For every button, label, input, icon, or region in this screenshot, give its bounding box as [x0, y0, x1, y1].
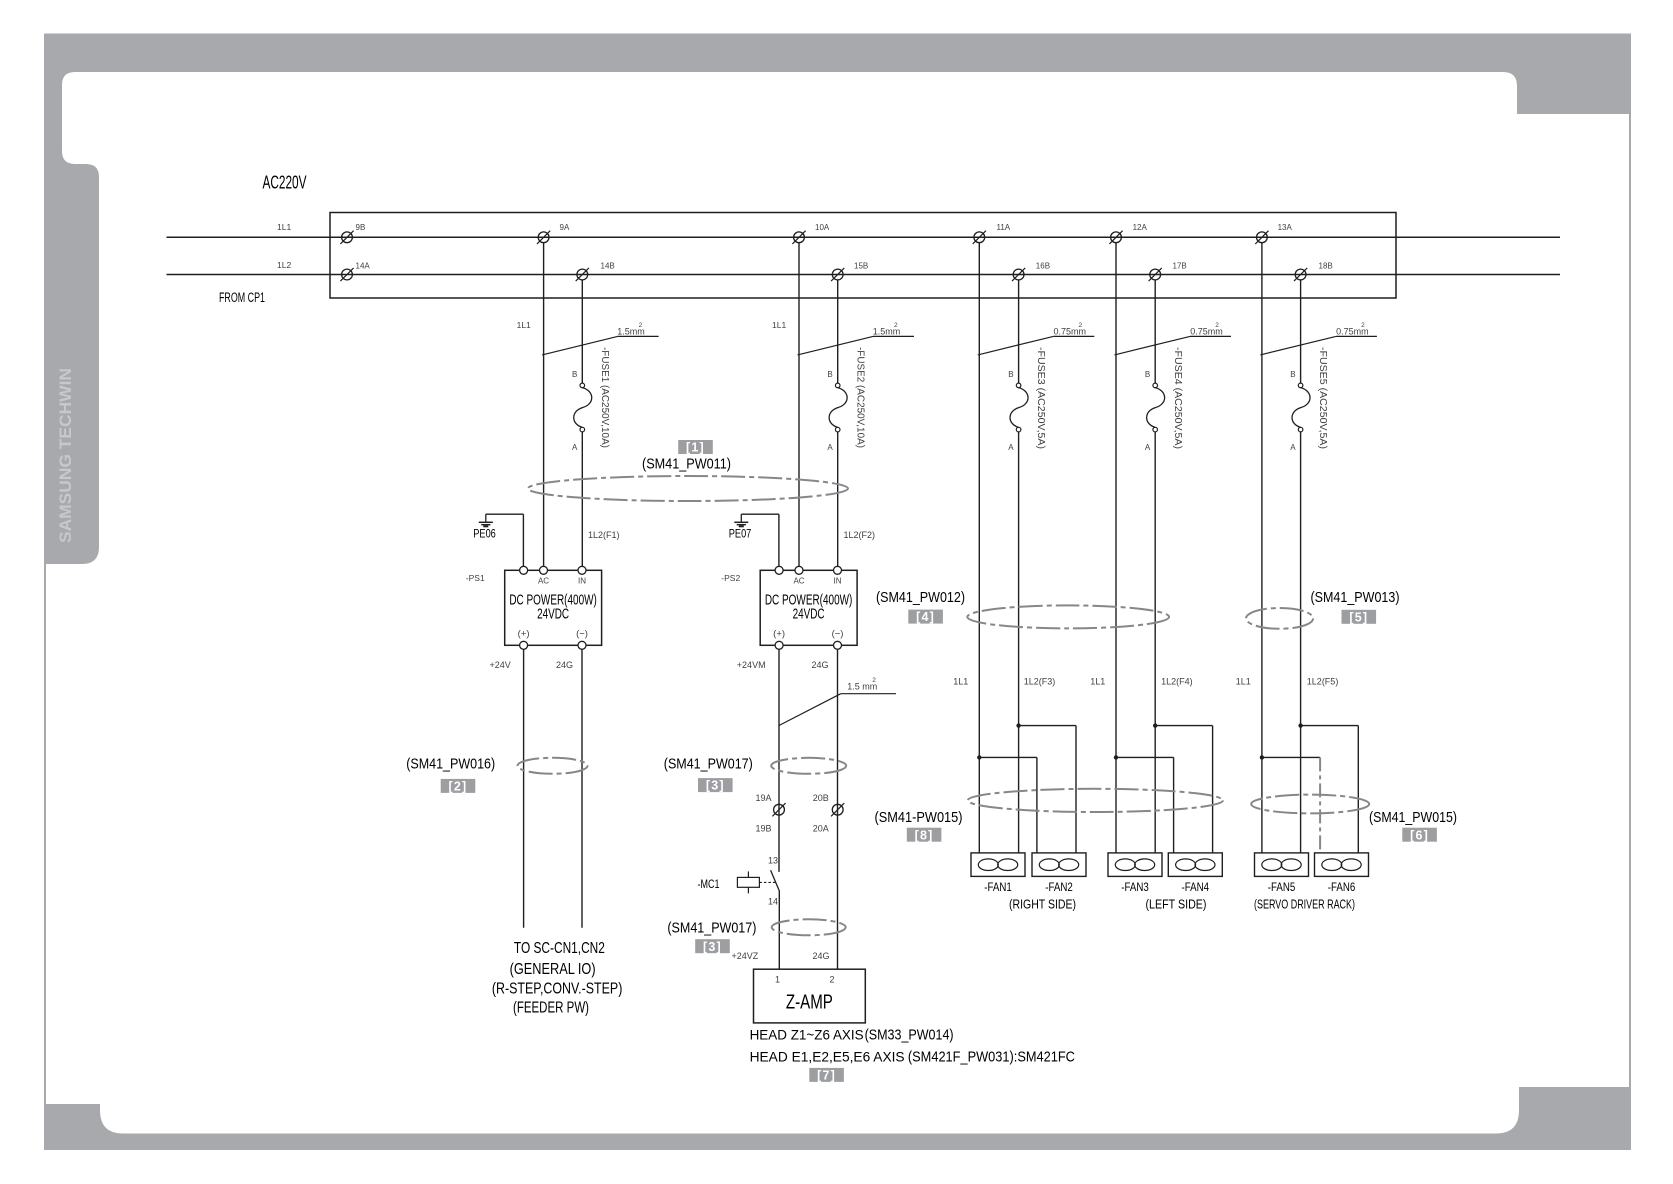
wire 1L2 drop through FUSE3 — [1018, 280, 1020, 853]
svg-text:TO SC-CN1,CN2: TO SC-CN1,CN2 — [514, 940, 605, 957]
svg-text:(LEFT SIDE): (LEFT SIDE) — [1146, 897, 1207, 911]
wire 1L2 drop through FUSE4 — [1154, 280, 1156, 853]
cable ellipse (SM41_PW016) — [518, 758, 588, 774]
svg-text:24VDC: 24VDC — [793, 607, 825, 623]
wire gauge marker 1.5mm2 (PS2 output) — [779, 677, 896, 726]
svg-text:2: 2 — [1079, 322, 1083, 329]
svg-text:(−): (−) — [832, 629, 844, 640]
destination note text — [492, 940, 623, 1016]
svg-text:1L1: 1L1 — [953, 677, 968, 687]
svg-text:AC220V: AC220V — [263, 172, 307, 192]
svg-text:[3]: [3] — [703, 940, 722, 954]
svg-text:B: B — [827, 370, 832, 379]
svg-text:1L1: 1L1 — [1236, 677, 1251, 687]
fan -FAN6 — [1315, 853, 1369, 894]
label (SM41_PW015) — [1369, 809, 1457, 826]
fan -FAN1 — [971, 853, 1025, 894]
node junction 1L1 branch to FAN6 (dash-dot) — [1260, 755, 1320, 853]
badge [8] — [907, 828, 942, 843]
svg-text:(SM41_PW017): (SM41_PW017) — [667, 919, 756, 936]
Z-AMP destination notes — [750, 1027, 1075, 1066]
badge [7] — [809, 1068, 844, 1083]
ground PE07 — [729, 514, 752, 540]
power supply PS1 — [466, 566, 602, 649]
svg-text:Z-AMP: Z-AMP — [786, 991, 833, 1014]
svg-text:14B: 14B — [601, 262, 615, 271]
fan -FAN3 — [1108, 853, 1162, 894]
node junction 1L1 branch to FAN4 — [1114, 755, 1174, 853]
svg-text:-FAN6: -FAN6 — [1328, 880, 1356, 894]
wire gauge marker 0.75mm2 (col 4) — [1115, 322, 1232, 355]
svg-text:1L1: 1L1 — [1090, 677, 1105, 687]
wire 1L2 bus line — [167, 260, 1561, 274]
wire gauge marker 1.5mm2 (col 1) — [542, 322, 659, 355]
FROM CP1 label — [219, 290, 265, 305]
node junction 1L2(F5) branch — [1298, 723, 1358, 853]
wire 1L2 drop through FUSE2 — [837, 280, 839, 566]
svg-text:12A: 12A — [1133, 223, 1148, 232]
ground PE06 — [473, 514, 496, 540]
svg-text:10A: 10A — [815, 223, 830, 232]
svg-text:1L1: 1L1 — [277, 222, 291, 232]
svg-text:-FAN2: -FAN2 — [1045, 880, 1073, 894]
label 1L1 fan feed — [1236, 677, 1251, 687]
fuse FUSE4 — [1145, 347, 1183, 452]
wire PE07 to PS2 — [741, 514, 779, 566]
svg-text:(+): (+) — [518, 629, 530, 640]
terminal 18B — [1294, 262, 1333, 282]
svg-text:2: 2 — [1361, 322, 1365, 329]
wire gauge marker 0.75mm2 (col 5) — [1260, 322, 1377, 355]
label 1L1 fan feed — [953, 677, 968, 687]
svg-text:20B: 20B — [813, 793, 829, 803]
svg-text:(GENERAL IO): (GENERAL IO) — [510, 961, 596, 978]
svg-text:-FUSE3 (AC250V,5A): -FUSE3 (AC250V,5A) — [1035, 347, 1046, 449]
svg-text:[8]: [8] — [915, 828, 934, 842]
terminal 14B — [576, 262, 615, 282]
svg-text:-FAN4: -FAN4 — [1182, 880, 1210, 894]
wire 1L1 drop to PS2 — [772, 243, 799, 567]
cable ellipse (SM41_PW012) — [967, 605, 1169, 628]
svg-text:IN: IN — [834, 577, 842, 586]
svg-text:B: B — [1008, 370, 1013, 379]
svg-text:13A: 13A — [1278, 223, 1293, 232]
label (LEFT SIDE) — [1146, 897, 1207, 911]
label 1L1 fan feed — [1090, 677, 1105, 687]
svg-text:13: 13 — [768, 856, 778, 866]
terminal 9B — [340, 223, 365, 244]
svg-text:(RIGHT SIDE): (RIGHT SIDE) — [1009, 897, 1076, 911]
svg-text:24G: 24G — [812, 660, 829, 670]
svg-text:FROM CP1: FROM CP1 — [219, 290, 265, 305]
label +24VM — [737, 660, 766, 670]
samsung techwin sidebar logo — [56, 368, 75, 543]
svg-text:1: 1 — [775, 975, 780, 985]
wire +24VM down from PS2 — [778, 649, 780, 872]
svg-text:1L2(F3): 1L2(F3) — [1024, 677, 1056, 687]
svg-text:[1]: [1] — [686, 441, 705, 455]
svg-text:2: 2 — [1215, 322, 1219, 329]
label (SM41_PW016) — [406, 755, 495, 772]
wire 1L1 drop (col 4) — [1115, 243, 1117, 853]
svg-text:+24VM: +24VM — [737, 660, 766, 670]
label 24G (PS1) — [556, 660, 573, 670]
badge [5] — [1342, 610, 1377, 625]
terminal 14A — [340, 262, 370, 282]
svg-text:18B: 18B — [1319, 262, 1333, 271]
label 1L2(F2) — [844, 530, 876, 540]
svg-text:(SM41_PW015): (SM41_PW015) — [1369, 809, 1457, 826]
label (SM41_PW017) upper — [664, 755, 753, 772]
svg-text:(+): (+) — [773, 629, 785, 640]
svg-text:[6]: [6] — [1410, 828, 1429, 842]
svg-text:IN: IN — [578, 577, 586, 586]
svg-text:A: A — [1145, 443, 1151, 452]
label +24V — [490, 660, 511, 670]
label 1L2(F1) — [588, 530, 620, 540]
svg-text:B: B — [1145, 370, 1150, 379]
svg-text:9B: 9B — [356, 223, 366, 232]
svg-text:[2]: [2] — [449, 780, 468, 794]
svg-text:14: 14 — [768, 897, 778, 907]
cable ellipse (SM41_PW015) fans 5-6 — [1251, 795, 1369, 814]
svg-text:11A: 11A — [997, 223, 1011, 232]
badge [2] — [441, 779, 476, 794]
svg-text:[7]: [7] — [817, 1069, 836, 1083]
terminal 9A — [537, 223, 570, 244]
svg-text:A: A — [827, 443, 833, 452]
svg-text:19B: 19B — [756, 823, 772, 833]
terminal 16B — [1012, 262, 1050, 282]
bus terminal box — [330, 213, 1396, 299]
wire PE06 to PS1 — [486, 514, 524, 566]
label (SM41_PW013) — [1311, 589, 1400, 606]
svg-text:(SERVO DRIVER RACK): (SERVO DRIVER RACK) — [1254, 897, 1355, 911]
svg-text:A: A — [572, 443, 578, 452]
svg-text:-FUSE1 (AC250V,10A): -FUSE1 (AC250V,10A) — [599, 347, 610, 448]
terminal 10A — [792, 223, 829, 244]
svg-text:16B: 16B — [1036, 262, 1050, 271]
label (SM41_PW011) — [642, 455, 731, 472]
terminal 13A — [1255, 223, 1292, 244]
amplifier Z-AMP — [754, 969, 866, 1023]
cable ellipse (SM41_PW017) upper — [771, 758, 846, 774]
wire gauge marker 1.5mm2 (col 2) — [798, 322, 915, 355]
label 1L2(F5) fan feed — [1307, 677, 1339, 687]
svg-text:HEAD Z1~Z6 AXIS: HEAD Z1~Z6 AXIS — [750, 1028, 864, 1043]
svg-text:-PS1: -PS1 — [466, 573, 485, 583]
label 24G (PS2) — [812, 660, 829, 670]
svg-text:-PS2: -PS2 — [721, 573, 740, 583]
svg-text:SAMSUNG TECHWIN: SAMSUNG TECHWIN — [56, 368, 75, 543]
svg-text:2: 2 — [872, 677, 876, 684]
cable ellipse (SM41_PW011) — [528, 476, 848, 501]
wire 1L1 drop (col 3) — [978, 243, 980, 853]
wire 1L1 drop (col 5) — [1261, 243, 1263, 853]
svg-text:-FAN3: -FAN3 — [1121, 880, 1149, 894]
fan -FAN2 — [1032, 853, 1086, 894]
badge [3] upper — [698, 778, 733, 793]
svg-text:1L2(F5): 1L2(F5) — [1307, 677, 1339, 687]
svg-text:(SM41_PW013): (SM41_PW013) — [1311, 589, 1400, 606]
svg-text:14A: 14A — [356, 262, 371, 271]
svg-text:(SM41_PW012): (SM41_PW012) — [876, 589, 965, 606]
label 1L2(F3) fan feed — [1024, 677, 1056, 687]
terminal 15B — [831, 262, 868, 282]
terminal 19A/19B — [756, 793, 786, 834]
svg-text:(SM33_PW014): (SM33_PW014) — [865, 1027, 954, 1044]
svg-text:[5]: [5] — [1349, 610, 1368, 624]
cable ellipse (SM41-PW015) fans 1-4 — [968, 789, 1223, 812]
cable ellipse (SM41_PW013) — [1246, 608, 1313, 629]
svg-text:[4]: [4] — [916, 610, 935, 624]
AC220V label — [263, 172, 307, 192]
svg-text:AC: AC — [793, 577, 804, 586]
svg-text:2: 2 — [829, 975, 834, 985]
svg-text:(SM41_PW016): (SM41_PW016) — [406, 755, 495, 772]
svg-text:-FUSE4 (AC250V,5A): -FUSE4 (AC250V,5A) — [1172, 347, 1183, 449]
svg-text:1L1: 1L1 — [772, 320, 786, 330]
svg-text:17B: 17B — [1173, 262, 1187, 271]
svg-text:-MC1: -MC1 — [698, 877, 720, 891]
svg-text:-FUSE5 (AC250V,5A): -FUSE5 (AC250V,5A) — [1317, 347, 1328, 449]
power supply PS2 — [721, 566, 857, 649]
node junction 1L2(F4) branch — [1153, 723, 1213, 853]
wire contact to Z-AMP pin1 — [778, 891, 780, 969]
svg-text:9A: 9A — [560, 223, 570, 232]
fuse FUSE2 — [827, 347, 865, 452]
node junction 1L2(F3) branch — [1016, 723, 1076, 853]
wire 24G down from PS2 — [837, 649, 839, 969]
terminal 12A — [1109, 223, 1147, 244]
wire 1L2 drop through FUSE5 — [1300, 280, 1302, 853]
fan -FAN4 — [1168, 853, 1222, 894]
wire +24V down from PS1 — [523, 649, 525, 928]
badge [3] lower — [695, 939, 730, 954]
terminal 11A — [973, 223, 1011, 244]
fuse FUSE5 — [1290, 347, 1328, 452]
svg-text:(SM421F_PW031):SM421FC: (SM421F_PW031):SM421FC — [908, 1049, 1075, 1066]
label (SM41_PW012) — [876, 589, 965, 606]
svg-text:20A: 20A — [813, 823, 829, 833]
terminal 20B/20A — [813, 793, 845, 834]
svg-text:A: A — [1008, 443, 1014, 452]
svg-text:B: B — [1290, 370, 1295, 379]
svg-text:24G: 24G — [813, 951, 830, 961]
wire 24G down from PS1 — [581, 649, 583, 928]
wire 1L1 drop to PS1 — [517, 243, 544, 567]
svg-text:1L2(F1): 1L2(F1) — [588, 530, 620, 540]
svg-text:+24V: +24V — [490, 660, 511, 670]
svg-text:HEAD E1,E2,E5,E6 AXIS: HEAD E1,E2,E5,E6 AXIS — [750, 1050, 905, 1065]
label +24VZ — [732, 951, 759, 961]
cable ellipse (SM41_PW017) lower — [772, 919, 846, 935]
svg-text:[3]: [3] — [706, 779, 725, 793]
svg-text:(−): (−) — [576, 629, 588, 640]
fuse FUSE3 — [1008, 347, 1046, 452]
svg-text:B: B — [572, 370, 577, 379]
svg-text:19A: 19A — [756, 793, 772, 803]
wire 1L1 bus line — [167, 222, 1561, 238]
badge [1] — [678, 440, 713, 455]
svg-text:24G: 24G — [556, 660, 573, 670]
node junction 1L1 branch to FAN2 — [977, 755, 1037, 853]
svg-text:15B: 15B — [854, 262, 868, 271]
svg-text:24VDC: 24VDC — [537, 607, 569, 623]
svg-text:-FAN5: -FAN5 — [1268, 880, 1296, 894]
svg-text:(R-STEP,CONV.-STEP): (R-STEP,CONV.-STEP) — [492, 981, 623, 998]
svg-text:PE07: PE07 — [729, 526, 752, 540]
label (RIGHT SIDE) — [1009, 897, 1076, 911]
svg-text:PE06: PE06 — [473, 526, 496, 540]
svg-text:-FUSE2 (AC250V,10A): -FUSE2 (AC250V,10A) — [854, 347, 865, 448]
svg-text:(FEEDER PW): (FEEDER PW) — [513, 999, 589, 1016]
svg-text:+24VZ: +24VZ — [732, 951, 759, 961]
svg-text:2: 2 — [639, 322, 643, 329]
terminal 17B — [1149, 262, 1187, 282]
svg-text:(SM41_PW017): (SM41_PW017) — [664, 755, 753, 772]
wire gauge marker 0.75mm2 (col 3) — [978, 322, 1095, 355]
badge [6] — [1402, 828, 1437, 843]
svg-text:A: A — [1290, 443, 1296, 452]
svg-text:(SM41-PW015): (SM41-PW015) — [875, 809, 963, 826]
svg-text:2: 2 — [894, 322, 898, 329]
svg-text:1L2(F2): 1L2(F2) — [844, 530, 876, 540]
svg-text:(SM41_PW011): (SM41_PW011) — [642, 455, 731, 472]
svg-text:1L1: 1L1 — [517, 320, 531, 330]
contact MC1 (13/14) — [698, 856, 780, 907]
label 1L2(F4) fan feed — [1161, 677, 1193, 687]
svg-text:-FAN1: -FAN1 — [984, 880, 1012, 894]
label 24G (Z-AMP) — [813, 951, 830, 961]
wire 1L2 drop through FUSE1 — [581, 280, 583, 566]
fuse FUSE1 — [572, 347, 610, 452]
label (SERVO DRIVER RACK) — [1254, 897, 1355, 911]
badge [4] — [908, 610, 943, 625]
svg-text:1L2(F4): 1L2(F4) — [1161, 677, 1193, 687]
label (SM41_PW017) lower — [667, 919, 756, 936]
fan -FAN5 — [1255, 853, 1309, 894]
svg-text:AC: AC — [538, 577, 549, 586]
label (SM41-PW015) — [875, 809, 963, 826]
svg-text:1L2: 1L2 — [277, 260, 291, 270]
